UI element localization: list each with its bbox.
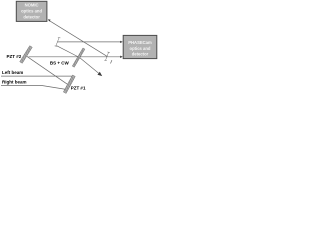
svg-text:detector: detector — [23, 15, 40, 20]
svg-text:NOMIC: NOMIC — [25, 2, 39, 7]
svg-text:PZT #1: PZT #1 — [71, 86, 86, 91]
svg-text:Left beam: Left beam — [2, 70, 23, 75]
svg-text:optics and: optics and — [21, 9, 42, 14]
svg-text:BS + CW: BS + CW — [50, 61, 70, 66]
svg-text:Right beam: Right beam — [2, 80, 27, 85]
svg-text:PZT #2: PZT #2 — [7, 54, 22, 59]
svg-text:detector: detector — [132, 52, 149, 57]
svg-text:PHASECam: PHASECam — [128, 40, 152, 45]
svg-text:optics and: optics and — [130, 46, 151, 51]
